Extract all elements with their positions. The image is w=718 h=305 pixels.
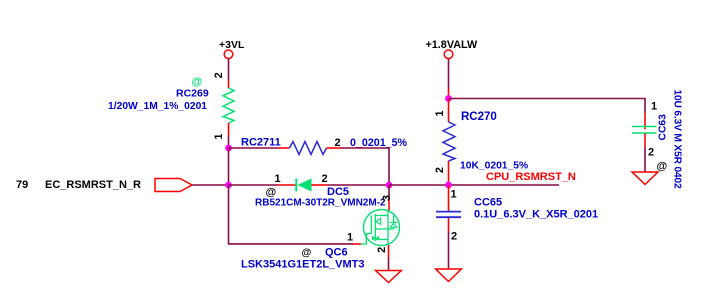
wire DC5 pin2 red xyxy=(312,184,328,186)
transistor QC6 gate lead xyxy=(361,234,372,245)
resistor RC270 zigzag xyxy=(443,122,455,161)
transistor QC6 body diode triangle xyxy=(390,223,396,227)
wire node A to RC2711 xyxy=(229,147,279,149)
svg-text:CC63: CC63 xyxy=(657,114,668,141)
svg-text:1: 1 xyxy=(434,110,446,116)
resistor RC2711 zigzag xyxy=(290,142,327,155)
capacitor CC63 plates xyxy=(632,126,657,128)
resistor RC269 zigzag xyxy=(223,88,234,123)
node C junction dot xyxy=(386,182,393,189)
wire port to node B xyxy=(192,184,229,186)
transistor QC6 source bowtie arrow xyxy=(372,236,376,241)
svg-text:0.1U_6.3V_K_X5R_0201: 0.1U_6.3V_K_X5R_0201 xyxy=(474,209,598,221)
svg-text:10K_0201_5%: 10K_0201_5% xyxy=(460,161,528,172)
svg-text:3: 3 xyxy=(381,195,393,201)
wire QC6 source maroon xyxy=(388,258,390,271)
wire RC2711 to corner xyxy=(341,148,389,185)
wire into node E red xyxy=(448,88,450,99)
port symbol arrow xyxy=(155,179,192,192)
transistor QC6 body diode branch xyxy=(393,216,395,223)
svg-text:CC65: CC65 xyxy=(474,197,502,209)
svg-text:1: 1 xyxy=(347,232,353,244)
wire node E to CC63 corner xyxy=(449,99,646,114)
transistor QC6 body arrow xyxy=(376,218,381,224)
svg-text:2: 2 xyxy=(376,247,388,253)
wire +1.8VALW down xyxy=(448,59,450,88)
svg-text:1/20W_1M_1%_0201: 1/20W_1M_1%_0201 xyxy=(108,101,207,112)
transistor QC6 body diode to mid xyxy=(393,227,395,229)
wire RC270 pin2 red xyxy=(448,161,450,182)
transistor QC6 rail xyxy=(387,216,389,245)
svg-text:1: 1 xyxy=(451,189,457,201)
transistor QC6 drain lead xyxy=(387,210,389,216)
wire RC269 pin1 red xyxy=(228,123,230,136)
wire CC63 pin1 red xyxy=(644,113,646,126)
wire CC63 to ground xyxy=(644,148,646,172)
node E junction dot xyxy=(445,95,452,102)
svg-text:RB521CM-30T2R_VMN2M-2: RB521CM-30T2R_VMN2M-2 xyxy=(255,198,386,209)
transistor QC6 body diode cathode bar xyxy=(390,221,397,223)
svg-text:DC5: DC5 xyxy=(327,186,349,198)
ground below QC6 xyxy=(376,271,402,283)
svg-text:79: 79 xyxy=(16,179,28,191)
wire into node A xyxy=(228,136,230,148)
svg-text:RC2711: RC2711 xyxy=(241,137,281,149)
svg-text:2: 2 xyxy=(648,147,654,159)
svg-text:LSK3541G1ET2L_VMT3: LSK3541G1ET2L_VMT3 xyxy=(241,259,365,271)
svg-text:2: 2 xyxy=(322,173,328,185)
node A junction dot xyxy=(225,145,232,152)
wire QC6 gate red xyxy=(353,243,361,245)
wire CC63 plate nub red xyxy=(644,127,646,129)
transistor QC6 gate bar xyxy=(370,216,372,234)
wire CC63 pin2 red xyxy=(644,134,646,149)
power +3VL circle xyxy=(224,50,233,59)
svg-text:2: 2 xyxy=(434,167,446,173)
wire node B to DC5 xyxy=(229,184,279,186)
transistor QC6 channel bar xyxy=(374,214,376,241)
svg-text:1: 1 xyxy=(275,173,281,185)
wire CC65 pin1 red xyxy=(448,185,450,211)
svg-text:@: @ xyxy=(192,76,203,88)
wire CC65 pin2 red xyxy=(448,218,450,231)
svg-text:10U 6.3V M X5R 0402: 10U 6.3V M X5R 0402 xyxy=(672,89,683,189)
transistor QC6 bottom stub xyxy=(375,239,388,241)
svg-text:QC6: QC6 xyxy=(325,247,348,259)
svg-text:2: 2 xyxy=(335,137,341,149)
wire RC269 pin2 red xyxy=(228,80,230,88)
node B junction dot xyxy=(225,182,232,189)
wire node D to net end xyxy=(449,184,560,186)
transistor QC6 middle stub xyxy=(375,228,393,230)
svg-text:1: 1 xyxy=(651,101,657,113)
capacitor CC65 plates xyxy=(436,211,461,213)
svg-text:EC_RSMRST_N_R: EC_RSMRST_N_R xyxy=(45,179,141,191)
ground below CC63 xyxy=(632,172,658,185)
node D junction dot xyxy=(445,182,452,189)
wire RC270 pin1 red xyxy=(448,99,450,123)
diode DC5 triangle xyxy=(298,179,312,192)
svg-text:2: 2 xyxy=(213,72,225,78)
power +1.8VALW circle xyxy=(444,50,453,59)
svg-text:2: 2 xyxy=(451,231,457,243)
svg-text:@: @ xyxy=(657,161,668,173)
wire node C to node D xyxy=(389,184,449,186)
wire RC2711 pin2 red xyxy=(327,147,342,149)
wire +3VL down to RC269 xyxy=(228,59,230,80)
svg-text:CPU_RSMRST_N: CPU_RSMRST_N xyxy=(486,171,576,183)
svg-text:+3VL: +3VL xyxy=(219,39,245,51)
svg-text:RC270: RC270 xyxy=(461,111,497,123)
wire DC5 pin1 red xyxy=(278,184,296,186)
ground below CC65 xyxy=(436,269,462,282)
transistor QC6 circle xyxy=(364,210,400,246)
svg-text:RC269: RC269 xyxy=(176,88,209,100)
svg-text:+1.8VALW: +1.8VALW xyxy=(426,39,479,51)
wire DC5 to node C xyxy=(327,184,389,186)
transistor QC6 top stub xyxy=(375,215,388,217)
wire node A down to node B xyxy=(228,148,230,185)
wire QC6 drain red xyxy=(388,197,390,211)
wire RC2711 pin1 red xyxy=(278,147,290,149)
wire CC65 to ground xyxy=(448,231,450,269)
svg-text:1: 1 xyxy=(213,133,225,139)
svg-text:@: @ xyxy=(302,248,312,259)
diode DC5 cathode bar xyxy=(295,179,297,192)
wire node C down maroon xyxy=(388,185,390,197)
wire QC6 source red xyxy=(388,245,390,258)
wire node B down to gate corner xyxy=(229,185,354,244)
